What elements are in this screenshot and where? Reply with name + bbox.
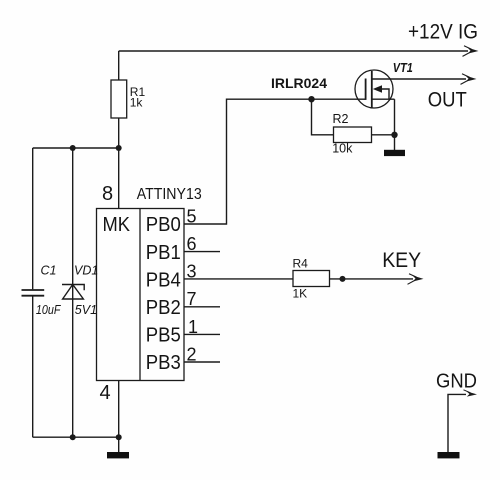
ground bar under MOSFET source: [384, 150, 405, 156]
ground bar under GND stub: [438, 452, 460, 458]
svg-text:5: 5: [187, 207, 197, 227]
junction node pin4 bottom: [116, 434, 122, 440]
svg-text:8: 8: [102, 183, 113, 205]
svg-text:5V1: 5V1: [75, 303, 97, 317]
wire C1 bottom plate to bottom rail: [32, 296, 34, 437]
wire MOSFET source down to ground: [394, 99, 396, 150]
transistor VT1 body arrow line: [381, 89, 389, 99]
svg-text:2: 2: [187, 345, 197, 365]
op-amp U1 ATTINY13 IC box: [97, 209, 185, 381]
svg-text:6: 6: [187, 234, 197, 254]
svg-text:3: 3: [187, 262, 197, 282]
transistor VT1 channel bar: [371, 71, 373, 108]
transistor VT1 gate plate: [365, 79, 367, 100]
svg-text:PB1: PB1: [146, 242, 181, 264]
wire pin 3 stub to R4: [184, 278, 293, 280]
svg-text:C1: C1: [41, 264, 57, 278]
wire R1 bottom to IC pin 8: [118, 118, 120, 209]
svg-text:PB3: PB3: [146, 352, 181, 374]
svg-text:GND: GND: [436, 371, 477, 393]
transistor VT1 source lead inside: [372, 98, 395, 100]
arrowhead KEY: [408, 274, 424, 285]
svg-text:R4: R4: [293, 257, 309, 271]
arrowhead OUT: [461, 74, 477, 85]
arrowhead GND: [464, 390, 478, 397]
svg-text:R2: R2: [333, 112, 349, 126]
junction node on KEY line: [340, 276, 346, 282]
junction node at R2 right / source: [391, 132, 397, 138]
wire VD1 vertical branch: [72, 148, 74, 437]
IC internal divider: [139, 209, 141, 381]
wire +12V rail horizontal: [119, 50, 468, 52]
junction node at gate / R2 tap: [308, 96, 314, 102]
wire left vertical to C1 top plate: [32, 148, 34, 289]
wire IC pin 4 to ground: [118, 381, 120, 453]
svg-text:ATTINY13: ATTINY13: [137, 186, 202, 203]
svg-text:4: 4: [100, 382, 111, 404]
svg-text:PB2: PB2: [146, 297, 181, 319]
junction node at R1 bottom left rail: [70, 145, 76, 151]
capacitor C1 plates: [22, 290, 45, 296]
transistor Q1 VT1 MOSFET circle: [355, 70, 393, 108]
wire GND stub with corner: [448, 394, 466, 452]
wire pin 5 stub to riser to MOSFET gate: [184, 99, 366, 224]
svg-text:MK: MK: [103, 214, 131, 236]
arrowhead +12V IG: [463, 46, 479, 57]
svg-text:OUT: OUT: [428, 88, 467, 111]
svg-text:1: 1: [188, 317, 198, 337]
resistor R2 body: [334, 127, 372, 143]
svg-text:PB5: PB5: [146, 325, 181, 347]
svg-text:10uF: 10uF: [36, 303, 62, 317]
wire bottom rail horizontal: [33, 436, 119, 438]
svg-text:10k: 10k: [332, 142, 353, 156]
svg-text:+12V IG: +12V IG: [408, 21, 478, 44]
wire pin 2 stub: [184, 361, 220, 363]
svg-text:7: 7: [187, 289, 197, 309]
resistor R1 body: [111, 80, 127, 118]
resistor R4 body: [293, 271, 330, 287]
junction node VD1 bottom: [70, 434, 76, 440]
svg-text:1k: 1k: [130, 96, 144, 110]
svg-text:VT1: VT1: [393, 61, 413, 75]
svg-text:1K: 1K: [293, 287, 308, 301]
wire R4 right to KEY arrow: [330, 278, 414, 280]
wire pin 7 stub: [184, 306, 220, 308]
svg-text:PB0: PB0: [146, 214, 181, 236]
wire gate node down to R2 left: [312, 99, 334, 135]
svg-text:PB4: PB4: [146, 269, 181, 291]
wire MOSFET drain to OUT: [372, 78, 466, 80]
junction node at R1 bottom: [116, 145, 122, 151]
svg-text:KEY: KEY: [382, 249, 421, 272]
ground bar under IC pin 4: [107, 452, 129, 458]
svg-text:VD1: VD1: [74, 264, 98, 278]
svg-text:IRLR024: IRLR024: [271, 75, 327, 91]
wire left branch horizontal at node: [33, 147, 119, 149]
zener diode VD1 symbol: [62, 285, 84, 300]
wire pin 1 stub: [184, 333, 220, 335]
wire pin 6 stub: [184, 251, 220, 253]
wire riser from +12V rail to R1 top: [118, 51, 120, 80]
wire R2 right to source node: [372, 134, 395, 136]
transistor VT1 body arrowhead: [373, 85, 382, 92]
